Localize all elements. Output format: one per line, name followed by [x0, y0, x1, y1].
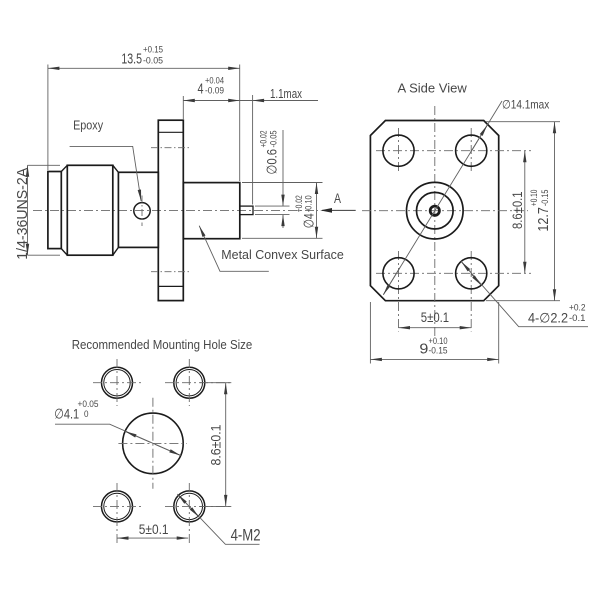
center hole horizontal centerline — [118, 442, 187, 444]
thread dim line — [27, 165, 29, 255]
body dia dim line — [316, 183, 318, 239]
svg-text:-0.1: -0.1 — [569, 313, 586, 323]
hole callout arrow down-right — [471, 274, 481, 285]
svg-text:12.7: 12.7 — [536, 207, 552, 232]
svg-text:0: 0 — [84, 409, 89, 419]
pin dia arrow bottom — [282, 215, 284, 228]
dim 4 line — [183, 100, 239, 102]
svg-text:+0.04: +0.04 — [205, 75, 224, 85]
svg-text:+0.02: +0.02 — [258, 131, 268, 148]
svg-text:-0.15: -0.15 — [429, 346, 448, 356]
flange vertical centerline — [434, 106, 436, 336]
svg-text:4-M2: 4-M2 — [231, 527, 261, 545]
body dia ext top — [242, 182, 323, 184]
dia 14.1 arrow bottom-left — [383, 268, 400, 295]
dim 8.6 line bottom view — [225, 383, 227, 507]
dim 8.6 ext top — [200, 382, 231, 384]
connector back nut — [48, 172, 61, 249]
center body circle — [407, 182, 464, 239]
svg-text:A: A — [334, 190, 341, 206]
svg-text:5±0.1: 5±0.1 — [421, 310, 449, 325]
dim 5 line bottom view — [117, 537, 188, 539]
svg-text:+0.02: +0.02 — [294, 195, 304, 212]
svg-text:+0.10: +0.10 — [529, 190, 539, 207]
mounting hole bottom-right — [456, 258, 487, 289]
dim 4 ext line — [182, 96, 184, 119]
flange corner step top — [158, 131, 183, 133]
tap callout arrow up-left — [178, 494, 188, 504]
flange octagon outline — [370, 121, 498, 301]
dia 14.1 arrow top-right — [471, 125, 488, 152]
hole centerline col top-left — [398, 128, 400, 174]
tap hole top-left inner — [104, 370, 130, 396]
thread dim ext bottom — [28, 254, 61, 256]
hole callout arrow up-left — [461, 262, 471, 273]
svg-text:8.6±0.1: 8.6±0.1 — [209, 425, 224, 466]
svg-text:∅0.6: ∅0.6 — [263, 149, 279, 175]
crosshair bottom-right hole vertical — [188, 483, 190, 543]
svg-text:-0.05: -0.05 — [143, 55, 163, 65]
svg-text:∅4: ∅4 — [301, 213, 317, 228]
svg-text:Epoxy: Epoxy — [73, 117, 103, 132]
dim 12.7 ext top — [486, 121, 560, 123]
epoxy hole vertical centerline — [141, 196, 143, 227]
pin dia ext bottom — [255, 214, 290, 216]
barrel chamfer left-bottom — [61, 249, 67, 256]
section arrow A — [322, 209, 356, 211]
thread dim ext top — [28, 164, 61, 166]
dim 1.1max ext line — [252, 95, 254, 205]
body dia label — [294, 195, 317, 228]
svg-text:-0.10: -0.10 — [304, 195, 314, 212]
dim 8.6 label bottom view — [209, 425, 224, 466]
dim 12.7 ext bottom — [486, 300, 560, 302]
mid cylinder — [118, 172, 158, 247]
pin dia label — [258, 131, 279, 175]
dim 9 line — [370, 358, 498, 360]
svg-text:+0.10: +0.10 — [429, 336, 448, 346]
svg-text:A Side View: A Side View — [398, 81, 468, 96]
center hole leader — [55, 424, 181, 455]
barrel chamfer left-top — [61, 165, 67, 171]
hole centerline row bottom — [376, 272, 531, 274]
dim 12.7 label — [529, 190, 552, 232]
crosshair top-right hole horizontal — [165, 382, 231, 384]
front body — [183, 183, 240, 239]
dim 1.1max outside arrow — [253, 100, 265, 102]
hole centerline col top-right — [470, 128, 472, 174]
crosshair bottom-left hole horizontal — [93, 505, 141, 507]
mounting hole top-left — [383, 135, 414, 166]
dim 13.5 ext line left — [47, 65, 49, 171]
tap hole top-left outer — [102, 367, 133, 398]
dim 8.6 line right — [524, 151, 526, 274]
center hole vertical centerline — [152, 398, 154, 489]
flange corner step bottom — [158, 285, 183, 287]
svg-text:+0.15: +0.15 — [143, 45, 163, 55]
tap callout leader — [177, 494, 259, 544]
tap hole top-right outer — [174, 367, 205, 398]
crosshair top-right hole vertical — [188, 359, 190, 406]
svg-text:∅14.1max: ∅14.1max — [502, 98, 549, 112]
coupling barrel — [67, 165, 113, 255]
tap hole bottom-right outer — [174, 491, 205, 522]
svg-text:5±0.1: 5±0.1 — [139, 522, 169, 537]
hole centerline col bottom-left — [398, 251, 400, 332]
svg-text:13.5: 13.5 — [121, 51, 142, 67]
svg-text:4-∅2.2: 4-∅2.2 — [528, 311, 568, 326]
svg-text:-0.09: -0.09 — [205, 85, 224, 95]
flange horizontal centerline — [362, 210, 528, 212]
svg-text:Recommended Mounting Hole Size: Recommended Mounting Hole Size — [72, 337, 253, 352]
barrel chamfer right-bottom — [113, 247, 119, 255]
mounting hole top-right — [456, 135, 487, 166]
svg-text:9: 9 — [419, 342, 428, 358]
svg-text:∅4.1: ∅4.1 — [54, 406, 79, 422]
dim 1.1max tail line — [240, 100, 318, 102]
flange side view — [158, 120, 183, 300]
tap hole bottom-right inner — [176, 493, 202, 519]
svg-text:Metal Convex Surface: Metal Convex Surface — [221, 247, 343, 262]
tap hole bottom-left outer — [102, 491, 133, 522]
pin dia arrow top — [282, 130, 284, 206]
center insulator circle — [417, 192, 454, 229]
flange hole centerline top — [151, 147, 191, 149]
dim 13.5 ext line right — [239, 65, 241, 182]
svg-text:-0.05: -0.05 — [268, 131, 278, 148]
thread label 1/4-36UNS-2A — [14, 168, 31, 260]
dim 12.7 line — [554, 122, 556, 301]
barrel chamfer right-top — [113, 165, 119, 172]
epoxy hole — [134, 203, 150, 219]
hole centerline row top — [376, 150, 531, 152]
svg-text:-0.15: -0.15 — [540, 190, 550, 207]
metal convex leader — [199, 226, 269, 272]
pin dia ext top — [255, 205, 290, 207]
dim 8.6 label right — [509, 191, 525, 229]
dim 5 line — [399, 327, 472, 329]
svg-text:8.6±0.1: 8.6±0.1 — [509, 191, 525, 229]
svg-text:+0.2: +0.2 — [569, 303, 586, 313]
mounting hole bottom-left — [383, 258, 414, 289]
center pin ring — [430, 206, 439, 215]
center hole — [123, 413, 184, 474]
dim 13.5 line — [48, 67, 240, 69]
crosshair bottom-left hole vertical — [116, 483, 118, 543]
svg-text:1.1max: 1.1max — [270, 86, 302, 101]
centerline main axis — [33, 209, 318, 211]
center pin — [240, 206, 253, 215]
crosshair top-left hole horizontal — [93, 382, 141, 384]
flange hole centerline bottom — [151, 271, 191, 273]
tap hole top-right inner — [176, 370, 202, 396]
dim 8.6 ext bottom — [200, 505, 231, 507]
center hole leader arrow inner — [125, 431, 150, 442]
dim 9 ext right — [498, 302, 500, 364]
center hole leader arrow outer — [155, 444, 180, 455]
dim 9 ext left — [369, 302, 371, 364]
crosshair bottom-right hole horizontal — [165, 505, 231, 507]
epoxy leader — [70, 146, 142, 201]
tap hole bottom-left inner — [104, 493, 130, 519]
dia 14.1 max diagonal line — [384, 101, 503, 295]
svg-text:1/4-36UNS-2A: 1/4-36UNS-2A — [14, 168, 31, 260]
svg-text:4: 4 — [198, 81, 204, 97]
crosshair top-left hole vertical — [116, 359, 118, 406]
body dia ext bottom — [242, 237, 323, 239]
hole centerline col bottom-right — [470, 251, 472, 332]
tap callout arrow down-right — [189, 506, 199, 517]
hole callout leader diagonal — [461, 261, 588, 326]
svg-text:+0.05: +0.05 — [78, 399, 99, 409]
